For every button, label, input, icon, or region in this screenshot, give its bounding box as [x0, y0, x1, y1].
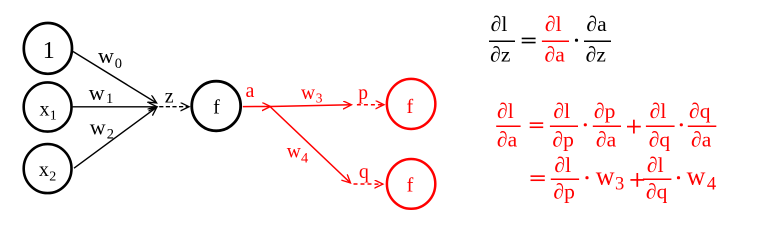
wire: red arrow w4 from branch to q — [271, 107, 351, 183]
svg-text:x: x — [39, 159, 49, 181]
svg-text:∂q: ∂q — [689, 99, 711, 123]
svg-text:2: 2 — [49, 169, 56, 184]
svg-text:∂l: ∂l — [554, 153, 571, 177]
svg-text:∂l: ∂l — [650, 99, 667, 123]
wire: dashed red arrow p to top f — [357, 104, 384, 106]
svg-text:4: 4 — [301, 151, 309, 167]
svg-text:∂l: ∂l — [647, 153, 664, 177]
wire: dashed arrow z to f — [159, 106, 189, 108]
svg-text:3: 3 — [316, 91, 323, 106]
svg-text:∂p: ∂p — [594, 99, 615, 123]
svg-text:1: 1 — [106, 91, 113, 107]
svg-text:w: w — [301, 83, 315, 104]
svg-text:4: 4 — [707, 175, 716, 195]
node: input circle x2 — [24, 144, 72, 193]
svg-text:f: f — [407, 175, 414, 197]
svg-text:∂a: ∂a — [691, 127, 712, 151]
wire: red arrow a from f to branch point — [243, 106, 271, 108]
wire: arrow w2 from node x2 to sum point — [74, 107, 157, 168]
node: input circle "1" — [24, 23, 72, 74]
dot — [680, 123, 683, 126]
svg-text:∂p: ∂p — [554, 180, 575, 204]
formula 2 line 2: = dl/dp . w3 + dl/dq . w4 (red) — [531, 153, 717, 204]
svg-text:f: f — [406, 96, 413, 118]
svg-text:w: w — [98, 43, 114, 68]
svg-text:∂a: ∂a — [497, 127, 518, 151]
svg-text:2: 2 — [107, 127, 114, 143]
svg-text:w: w — [89, 80, 105, 105]
equals — [531, 176, 545, 180]
dot — [677, 176, 680, 179]
formula 2 line 1: dl/da = dl/dp . dp/da + dl/dq . dq/da (red) — [496, 99, 716, 151]
wire: red arrow w3 from branch to p — [271, 105, 352, 107]
svg-text:∂l: ∂l — [553, 99, 570, 123]
svg-text:w: w — [687, 162, 706, 191]
svg-text:3: 3 — [615, 175, 624, 195]
dot — [584, 123, 587, 126]
plus — [630, 173, 644, 187]
svg-text:x: x — [40, 99, 50, 121]
svg-text:w: w — [287, 141, 301, 162]
svg-text:∂l: ∂l — [497, 99, 514, 123]
svg-text:w: w — [596, 162, 615, 191]
svg-text:q: q — [359, 161, 369, 183]
svg-text:∂a: ∂a — [596, 127, 617, 151]
svg-text:0: 0 — [115, 56, 122, 72]
dot (black) — [575, 39, 578, 42]
node: circle f (top red) — [387, 79, 436, 129]
wire: arrow w0 from node 1 to sum point — [73, 52, 157, 104]
svg-text:f: f — [213, 97, 220, 119]
frac dl/da (red) — [542, 12, 569, 67]
svg-text:∂a: ∂a — [545, 43, 566, 67]
dot — [585, 176, 588, 179]
equals (black) — [522, 38, 536, 42]
svg-text:∂p: ∂p — [553, 127, 574, 151]
node: input circle x1 — [24, 82, 72, 131]
svg-text:∂l: ∂l — [491, 12, 508, 36]
svg-text:a: a — [246, 80, 255, 102]
svg-text:∂l: ∂l — [545, 12, 562, 36]
svg-text:∂a: ∂a — [587, 12, 608, 36]
formula 1: dl/dz = dl/da . da/dz — [489, 12, 611, 67]
svg-text:∂q: ∂q — [646, 180, 668, 204]
node: circle f (black) — [192, 81, 241, 131]
svg-text:∂q: ∂q — [649, 127, 671, 151]
svg-text:∂z: ∂z — [490, 43, 510, 67]
svg-text:w: w — [90, 115, 106, 140]
svg-text:1: 1 — [43, 38, 55, 64]
svg-text:p: p — [358, 83, 368, 104]
wire: arrow w1 from node x1 to sum point — [73, 106, 157, 108]
svg-text:1: 1 — [50, 109, 57, 124]
svg-text:z: z — [165, 85, 174, 107]
plus — [627, 120, 641, 134]
svg-text:∂z: ∂z — [586, 43, 606, 67]
wire: dashed red arrow q to bottom f — [354, 183, 383, 185]
equals — [530, 123, 544, 127]
node: circle f (bottom red) — [387, 159, 435, 209]
